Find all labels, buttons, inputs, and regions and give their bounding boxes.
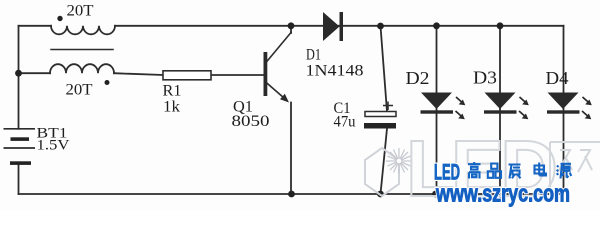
- diode D1 anode triangle: [323, 12, 340, 41]
- LED D3 triangle: [485, 93, 516, 110]
- glyph yuan: [557, 164, 572, 179]
- wire top rail right: [115, 25, 564, 27]
- transistor Q1 base bar: [264, 52, 268, 96]
- watermark starburst: [386, 148, 412, 174]
- transistor Q1 emitter arrowhead: [280, 94, 289, 103]
- LED D3 cathode bar: [484, 110, 517, 113]
- capacitor C1 bottom plate: [364, 123, 396, 129]
- wire LED D4 branch: [563, 26, 565, 194]
- node capacitor bottom rail: [377, 191, 384, 198]
- wire R1 to base: [211, 74, 264, 76]
- transistor Q1 emitter line: [267, 83, 284, 98]
- battery BT1 plate3 long: [4, 147, 36, 149]
- wire capacitor top lead: [381, 26, 388, 112]
- phase dot top winding: [57, 16, 62, 21]
- transformer T1 primary winding top: [51, 26, 115, 35]
- wire LED D3 branch: [499, 26, 501, 194]
- wire node-left to winding: [19, 72, 51, 74]
- watermark hexagon logo: [365, 148, 399, 196]
- svg-text:www.szryc.com: www.szryc.com: [435, 181, 570, 208]
- node D2 bottom rail: [432, 191, 439, 198]
- phase dot bottom winding: [105, 80, 110, 85]
- node collector top rail: [288, 22, 295, 29]
- node junction left rail: [15, 70, 22, 77]
- battery BT1 plate2 short thick: [11, 137, 30, 141]
- glyph dian: [535, 163, 547, 176]
- LED D2 cathode bar: [421, 110, 454, 113]
- node emitter bottom rail: [288, 191, 295, 198]
- LED D4 cathode bar: [547, 110, 580, 113]
- transistor Q1 collector line: [267, 33, 291, 62]
- wire collector stub: [290, 26, 292, 33]
- wire left vertical: [18, 26, 20, 129]
- wire top rail left: [19, 25, 52, 27]
- node D3 top rail: [497, 22, 504, 29]
- capacitor C1 top plate: [365, 112, 396, 117]
- wire battery bottom lead: [18, 165, 20, 194]
- battery BT1 plate4 short thick: [10, 161, 31, 165]
- diode D1 cathode bar: [340, 12, 344, 41]
- wire emitter vertical: [290, 103, 292, 195]
- glyph gao: [468, 162, 481, 179]
- wire LED D2 branch: [436, 26, 438, 194]
- node D2 top rail: [433, 22, 440, 29]
- LED D4 emission arrows: [583, 97, 592, 105]
- transformer T1 secondary winding bottom: [50, 64, 114, 73]
- LED D4 triangle: [548, 93, 579, 110]
- wire winding to R1: [114, 73, 163, 75]
- LED D2 triangle: [421, 93, 452, 110]
- node capacitor top rail: [377, 23, 384, 30]
- battery BT1 plate1 long: [4, 128, 36, 130]
- LED D2 emission arrows: [456, 97, 465, 105]
- glyph pin: [488, 164, 501, 178]
- transformer core: [51, 49, 113, 51]
- node D3 bottom rail: [497, 191, 504, 198]
- capacitor C1 plus sign: [383, 102, 393, 111]
- resistor R1 body: [163, 71, 211, 80]
- wire bottom rail: [19, 193, 564, 195]
- glyph zhi: [509, 165, 521, 179]
- LED D3 emission arrows: [520, 97, 529, 105]
- wire capacitor bottom lead: [381, 129, 388, 195]
- watermark big glyph wang: [550, 142, 600, 195]
